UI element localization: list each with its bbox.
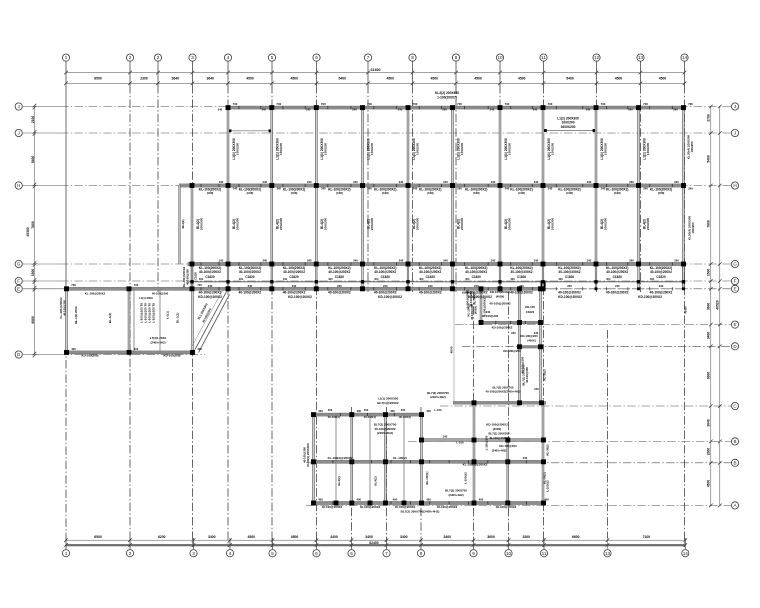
grid bubble E right [731,285,738,292]
svg-text:100X200: 100X200 [507,143,511,156]
grid line (vertical axis, lower wing x=386.5) [386,407,388,538]
columns row y=461.8 [311,459,546,464]
beam stub G-E at x=362.5 [362,264,364,289]
svg-text:240: 240 [587,180,592,184]
svg-text:2: 2 [129,55,132,60]
beam labels above axis J [233,91,694,106]
svg-text:40-100@200: 40-100@200 [152,292,169,296]
beam KL10 along axis D (annex bottom) [64,351,194,354]
grid bubble 3 bottom [190,550,197,557]
svg-text:240: 240 [277,186,282,190]
svg-text:40-100@200X2: 40-100@200X2 [395,505,416,509]
svg-text:40-100@200X2: 40-100@200X2 [322,505,343,509]
beam stub G-E at x=271.8 [271,264,273,289]
beam L5 y=322.5 [479,321,542,324]
beam KZL vertical at x=228 [227,108,229,264]
svg-text:4600: 4600 [450,346,454,353]
beam KZL vertical at x=408 [407,108,409,264]
grid line J (horizontal axis) [23,132,60,134]
svg-text:BL7(1)@200X2: BL7(1)@200X2 [377,401,399,405]
svg-text:240: 240 [533,108,538,112]
grid line G (horizontal axis) [23,263,60,265]
svg-text:(C08): (C08) [207,191,214,195]
svg-text:(400X): (400X) [527,339,535,343]
svg-text:3400: 3400 [208,535,216,539]
svg-text:240: 240 [307,258,312,262]
svg-text:(C08): (C08) [658,191,665,195]
beam KL8 along axis F [188,281,685,283]
grid bubble D left [15,351,22,358]
svg-text:240: 240 [399,258,404,262]
svg-text:40-100@200X2: 40-100@200X2 [437,505,458,509]
svg-text:9: 9 [472,551,475,556]
svg-text:3400: 3400 [400,535,408,539]
beam vertical south x=507.8 [507,440,509,503]
svg-text:61400: 61400 [371,68,381,72]
grid bubble 2 top [126,54,133,61]
grid line 14 (vertical axis) [684,62,686,86]
grid bubble 6 bottom [313,550,320,557]
svg-text:40-100@200X2: 40-100@200X2 [606,270,628,274]
svg-text:E: E [733,286,736,291]
svg-text:KD-100: KD-100 [525,305,535,309]
svg-text:(C08): (C08) [473,191,480,195]
svg-text:C1820: C1820 [381,275,391,279]
svg-text:KL10(2) 200X400: KL10(2) 200X400 [306,443,310,467]
grid bubble A right [731,502,738,509]
svg-text:200X300: 200X300 [550,218,554,231]
stair flight diagonal 2 [199,295,230,353]
svg-text:400: 400 [558,277,563,281]
svg-text:200X300: 200X300 [646,218,650,231]
svg-text:40-100@200X2: 40-100@200X2 [489,436,509,440]
svg-text:(2400+4H2): (2400+4H2) [430,395,446,399]
beam KL16 along axis A y=503 [312,501,546,504]
svg-text:(C08): (C08) [566,191,573,195]
grid bubble 4 top [224,54,231,61]
svg-text:400: 400 [393,497,398,501]
rotated beam labels rooms J-H [232,138,650,160]
svg-text:1500: 1500 [31,269,35,277]
beam KZL vertical at x=500 [499,108,501,264]
svg-text:700: 700 [71,283,76,287]
beam stub G-E at x=683.5 [683,264,685,289]
columns row F [190,280,685,283]
dimension line right overall 40520 [719,107,721,506]
grid line stub above bottom bubble x=66 [65,538,67,549]
svg-text:4500: 4500 [430,76,438,80]
svg-text:400: 400 [134,347,139,351]
svg-text:6500: 6500 [94,535,102,539]
svg-text:240: 240 [534,387,539,391]
svg-text:2700: 2700 [707,114,711,122]
svg-text:4500: 4500 [474,76,482,80]
svg-text:40500: 40500 [684,306,688,314]
extra labels connecting strip top block [462,291,539,392]
grid bubble 2 bottom [126,550,133,557]
svg-text:240: 240 [548,186,553,190]
svg-text:40-100@200X2: 40-100@200X2 [650,291,673,295]
grid bubble 13 bottom [604,550,611,557]
svg-text:(C08): (C08) [427,191,434,195]
columns row D annex [64,350,195,355]
svg-text:240: 240 [428,284,433,288]
svg-text:700: 700 [643,102,648,106]
svg-text:700: 700 [457,102,462,106]
grid line 4 (vertical axis) [227,62,229,86]
beam vertical south x=543 [542,403,544,503]
svg-text:240: 240 [292,284,297,288]
svg-text:240: 240 [601,186,606,190]
columns row A y=503 [311,501,546,506]
beam KZL vertical at x=192 [191,186,193,289]
grid bubble J right [731,129,738,136]
svg-text:100X200: 100X200 [235,143,239,156]
grid line (horizontal axis y=346.3) [462,345,731,347]
svg-text:240: 240 [688,186,693,190]
grid line E (horizontal axis) [23,288,60,290]
svg-text:BL-1(2) 200X: BL-1(2) 200X [74,306,78,323]
grid line stub above bottom bubble x=193.5 [193,538,195,549]
grid bubble 14 bottom [682,550,689,557]
beam KL14 along axis B (grey) y=440 [421,438,542,441]
svg-text:700: 700 [276,102,281,106]
svg-text:H: H [733,183,736,188]
dim leader x=454 strip [453,289,455,402]
svg-text:6500: 6500 [94,76,102,80]
svg-text:700: 700 [413,102,418,106]
svg-text:40-100@200X2: 40-100@200X2 [650,270,672,274]
svg-text:4: 4 [229,551,232,556]
svg-text:6: 6 [315,551,318,556]
svg-text:KL-30(2): KL-30(2) [546,444,550,455]
svg-text:400: 400 [328,408,333,412]
rotated labels south rooms [303,443,550,513]
svg-text:C1820: C1820 [245,275,255,279]
svg-text:240: 240 [413,186,418,190]
svg-text:L-100@200X2: L-100@200X2 [483,297,487,316]
svg-text:L-1(1): L-1(1) [166,311,170,319]
svg-text:40-100@200: 40-100@200 [303,447,307,463]
svg-text:B: B [733,439,736,444]
grid line 11 (vertical axis) [543,62,545,86]
svg-text:240: 240 [337,284,342,288]
secondary beam L1 axis 1/J bay 4-5 [228,130,272,132]
grid line (vertical axis, lower wing x=421) [420,407,422,538]
svg-text:240: 240 [491,180,496,184]
beam KL15 y=461.8 [312,460,546,463]
svg-text:200X300: 200X300 [279,218,283,231]
grid bubble 11 top [540,54,547,61]
svg-text:40-100@200X2: 40-100@200X2 [511,270,533,274]
svg-text:4500: 4500 [707,480,711,488]
grid bubble H right [731,182,738,189]
secondary beam south x=370 [369,415,371,503]
svg-text:KL-100@200X2: KL-100@200X2 [182,266,186,287]
grid bubble 7 bottom [383,550,390,557]
svg-text:100X200: 100X200 [550,143,554,156]
grid bubble 7 top [364,54,371,61]
grid bubble C right [731,402,738,409]
svg-text:400: 400 [606,277,611,281]
svg-text:10: 10 [506,551,512,556]
svg-text:200X300: 200X300 [415,218,419,231]
svg-text:240: 240 [443,258,448,262]
svg-text:400: 400 [479,497,484,501]
svg-text:7: 7 [385,551,388,556]
grid bubble J left [15,129,22,136]
svg-text:240: 240 [674,180,679,184]
svg-text:40-100@200X2: 40-100@200X2 [496,505,517,509]
svg-text:KL-30(2): KL-30(2) [543,369,547,380]
svg-text:3600: 3600 [487,535,495,539]
grid line stub above bottom bubble x=130 [129,538,131,549]
grid line H (horizontal axis) [23,185,60,187]
svg-text:240: 240 [353,258,358,262]
svg-text:BL4(2): BL4(2) [337,476,341,485]
svg-text:400: 400 [318,497,323,501]
svg-text:100X200: 100X200 [415,143,419,156]
svg-text:KL-100(2)@200X2: KL-100(2)@200X2 [463,462,488,466]
svg-text:4500: 4500 [246,76,254,80]
svg-text:100X200: 100X200 [646,143,650,156]
grid bubble 8 top [409,54,416,61]
svg-text:240: 240 [534,258,539,262]
svg-text:BL7(1) 200X300: BL7(1) 200X300 [488,431,509,435]
svg-text:6000: 6000 [707,372,711,380]
svg-text:40-100@200: 40-100@200 [185,269,189,285]
svg-text:400: 400 [426,409,431,413]
beam KZL vertical at x=596 [595,108,597,264]
svg-text:240: 240 [586,108,591,112]
svg-text:(2400+4H2): (2400+4H2) [492,448,507,452]
svg-text:C1820: C1820 [289,275,299,279]
svg-text:7100: 7100 [643,535,651,539]
svg-text:E: E [733,322,736,327]
beam KL2 along axis J [226,106,685,109]
svg-text:40-100(1): 40-100(1) [399,415,411,419]
svg-text:13: 13 [605,551,611,556]
svg-text:B: B [733,460,736,465]
svg-text:6200: 6200 [158,535,166,539]
svg-text:400: 400 [374,277,379,281]
svg-text:BL-100(1): BL-100(1) [425,471,429,484]
grid line 2 (vertical axis) [157,62,159,86]
svg-text:40-100@200X2: 40-100@200X2 [489,302,511,306]
grid bubble 3 top [189,54,196,61]
svg-text:J: J [734,104,736,109]
svg-text:KD-100@200X2: KD-100@200X2 [486,422,508,426]
grid line (horizontal axis y=324.6) [455,324,731,326]
svg-text:400: 400 [197,347,202,351]
svg-text:4500: 4500 [518,76,526,80]
beam KZL vertical at x=316.3 [315,108,317,264]
svg-text:700: 700 [505,102,510,106]
grid line 3 (vertical axis) [192,62,194,86]
grid bubble B right [731,438,738,445]
svg-text:240: 240 [398,108,403,112]
beam KZL vertical at x=543 [542,108,544,264]
svg-text:40-100@200X2: 40-100@200X2 [374,291,397,295]
labels under axis A [318,497,549,508]
beam KZL vertical at x=638.5 [638,108,640,264]
grid bubble G right [731,260,738,267]
columns row G [190,262,686,267]
svg-text:40-100@200X2: 40-100@200X2 [465,270,487,274]
svg-text:40-100@200X2: 40-100@200X2 [199,291,222,295]
svg-text:40-100@200: 40-100@200 [521,356,525,373]
svg-text:3600: 3600 [707,303,711,311]
svg-text:200X300: 200X300 [507,218,511,231]
svg-text:KD-100@200X2: KD-100@200X2 [492,326,513,330]
svg-text:6: 6 [350,551,353,556]
svg-text:7800: 7800 [707,220,711,228]
grid line (vertical axis, lower wing x=508.5) [508,292,510,538]
columns row y=414.6 [311,412,424,417]
grid bubble 6 top [313,54,320,61]
svg-text:G: G [17,262,21,267]
svg-text:240: 240 [442,108,447,112]
labels connecting strip [466,289,547,393]
svg-text:40-100@200X2: 40-100@200X2 [239,291,262,295]
svg-text:100X200: 100X200 [279,143,283,156]
grid bubble 1 top [62,54,69,61]
misc tiny marks 700 along axis J columns [218,108,678,112]
svg-text:240: 240 [248,284,253,288]
beam vertical south x=421.5 [421,415,423,503]
columns row E [64,286,685,291]
svg-text:9: 9 [455,55,458,60]
grid line (vertical axis, lower wing x=351.5) [351,407,353,538]
svg-text:(400X): (400X) [493,427,502,431]
svg-text:11: 11 [542,551,547,556]
svg-text:40-100@200: 40-100@200 [525,367,529,383]
svg-text:(C08): (C08) [614,191,621,195]
svg-text:40-100@200X2: 40-100@200X2 [419,270,441,274]
svg-text:C1820: C1820 [193,272,197,280]
svg-text:C1820: C1820 [526,310,535,314]
svg-text:40-100(1): 40-100(1) [328,415,340,419]
columns row y=346.8 [517,344,543,349]
svg-text:KD-100(200): KD-100(200) [82,354,99,358]
svg-text:BL4(2): BL4(2) [181,220,185,229]
svg-text:400: 400 [318,409,323,413]
svg-text:200X300: 200X300 [603,218,607,231]
svg-text:8: 8 [411,55,414,60]
grid line (horizontal axis y=462.8) [306,462,731,464]
labels corridor G-F [199,270,672,281]
dimension line top overall 61400 [66,72,685,74]
svg-text:(C08): (C08) [336,191,343,195]
dimension line bottom overall 62400 [66,544,685,546]
svg-text:(2400+4H2): (2400+4H2) [150,340,165,344]
grid bubble 14 top [681,54,688,61]
svg-text:240: 240 [352,108,357,112]
svg-text:240: 240 [443,434,448,438]
beam vertical annex left x=66.5 [66,289,68,353]
svg-text:240: 240 [263,180,268,184]
stirrup tick marks on lower beams [333,321,527,505]
beam stub G-E at x=192 [191,264,193,289]
labels south block top [318,391,449,419]
svg-text:1: 1 [65,551,68,556]
grid bubble J right [731,103,738,110]
secondary beam south x=404 [403,415,405,503]
svg-text:L-100@2: L-100@2 [546,480,550,492]
svg-text:400: 400 [390,409,395,413]
labels south block mid [328,422,528,466]
svg-text:700: 700 [197,283,202,287]
svg-text:BL7(2) 200X700(2400+4H2): BL7(2) 200X700(2400+4H2) [401,509,440,513]
grid bubble 9 top [452,54,459,61]
grid bubble H left [15,182,22,189]
svg-text:400: 400 [650,277,655,281]
beam KZL vertical at x=271.8 [271,108,273,264]
svg-text:240: 240 [262,108,267,112]
svg-text:5400: 5400 [566,76,574,80]
grid bubble J left [15,103,22,110]
svg-text:3: 3 [192,551,195,556]
svg-text:40-100@200X2: 40-100@200X2 [283,270,305,274]
svg-text:200X300: 200X300 [235,218,239,231]
svg-text:40-100@200X2(2400+4H2): 40-100@200X2(2400+4H2) [486,390,521,394]
svg-text:240: 240 [208,284,213,288]
grid line 12 (vertical axis) [596,62,598,86]
svg-text:13: 13 [638,55,644,60]
svg-text:3400: 3400 [365,535,373,539]
svg-text:KD-100@200X2: KD-100@200X2 [288,295,312,299]
svg-text:240: 240 [307,180,312,184]
columns row B y=440 [419,438,546,443]
svg-text:400: 400 [328,277,333,281]
svg-text:400: 400 [357,409,362,413]
svg-text:40-100@200X2: 40-100@200X2 [283,291,306,295]
extra labels strip left cluster [467,303,478,319]
grid bubble E left [15,285,22,292]
svg-text:L-100@2: L-100@2 [464,472,468,484]
svg-text:400: 400 [419,277,424,281]
svg-text:2100: 2100 [31,116,35,124]
svg-text:F: F [17,279,20,284]
svg-text:240: 240 [643,186,648,190]
grid bubble 5 top [268,54,275,61]
svg-text:12: 12 [594,55,600,60]
svg-text:4500: 4500 [659,76,667,80]
svg-text:3640: 3640 [206,76,214,80]
svg-text:200X300: 200X300 [199,218,203,231]
svg-text:100X200: 100X200 [691,222,695,233]
svg-text:240: 240 [629,180,634,184]
svg-text:200X300: 200X300 [460,218,464,231]
svg-text:240: 240 [587,258,592,262]
svg-text:KD-100@200: KD-100@200 [520,334,538,338]
secondary beam L1 axis 1/J bay 11-12 [545,130,596,132]
svg-text:3640: 3640 [707,419,711,427]
grid line stub above bottom bubble x=316.5 [316,538,318,549]
beam stub G-E at x=596 [595,264,597,289]
beam KL12 along axis C [453,401,546,404]
beam stub G-E at x=316.3 [316,264,318,289]
svg-text:(C08): (C08) [247,191,254,195]
svg-text:6600: 6600 [31,316,35,324]
svg-text:240: 240 [491,258,496,262]
svg-text:7: 7 [367,55,370,60]
svg-text:BL-1(2): BL-1(2) [108,313,112,324]
svg-text:KL30(4) 200X300: KL30(4) 200X300 [688,216,692,241]
labels right edge rotated [684,135,696,314]
svg-text:3400: 3400 [443,535,451,539]
svg-text:L1(1) 200X: L1(1) 200X [139,296,153,300]
